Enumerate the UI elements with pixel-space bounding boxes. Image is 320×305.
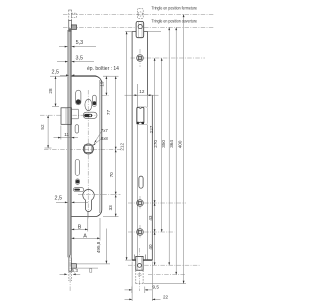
svg-text:40: 40 — [148, 244, 153, 250]
rod-plate junction dark segment — [68, 28, 71, 31]
latch bolt protruding left view — [61, 108, 71, 125]
dim 270 — [161, 58, 163, 232]
slot S6 with screw — [76, 179, 80, 184]
dim 11 — [60, 126, 62, 140]
bottom rod dashed left view — [68, 271, 70, 281]
slot S1 with screw — [76, 90, 81, 105]
svg-text:7x7: 7x7 — [101, 128, 109, 133]
svg-text:43: 43 — [148, 215, 153, 221]
centerline rod vertical axis right view — [139, 49, 141, 67]
latch tail inside case — [71, 108, 78, 110]
centerline bottom guide dashed position axis — [148, 274, 186, 276]
centerline follower axis — [44, 149, 121, 151]
svg-text:227: 227 — [149, 125, 154, 133]
dim 5,3 bottom — [60, 273, 68, 275]
bottom channel walls — [133, 255, 135, 261]
dim 22 — [131, 262, 133, 302]
pill S7 with dark slider — [73, 188, 83, 192]
centerline cylinder axis horizontal — [78, 194, 121, 196]
ext dashed rod bottom — [144, 283, 186, 285]
faceplate top edge right view — [132, 31, 136, 33]
dim 12 — [125, 94, 159, 96]
top fixing screw right view — [137, 55, 144, 62]
dim B — [87, 212, 89, 232]
svg-text:3,5: 3,5 — [76, 56, 84, 62]
section mark small rect — [90, 269, 92, 273]
centerline screw axis for 19 dim — [102, 95, 110, 97]
svg-text:Tringle en position ouverture: Tringle en position ouverture — [152, 18, 198, 23]
svg-text:77: 77 — [106, 110, 111, 116]
bottom rod guide block left view — [71, 264, 76, 269]
svg-text:Tringle en position fermeture: Tringle en position fermeture — [152, 5, 198, 10]
svg-text:9,5: 9,5 — [153, 284, 160, 289]
svg-text:11: 11 — [64, 132, 69, 137]
leader 8x8 — [93, 139, 102, 146]
svg-text:28: 28 — [48, 88, 53, 94]
dim 350 — [168, 27, 170, 265]
bottom rod guide dashed position — [135, 270, 137, 283]
centerline bottom guide axis — [128, 264, 201, 266]
svg-text:70: 70 — [109, 172, 114, 178]
svg-text:8x8: 8x8 — [101, 136, 109, 141]
faceplate right edge lower right view — [151, 95, 153, 260]
faceplate step edge — [148, 94, 153, 96]
centerline latch axis — [40, 114, 97, 116]
dim 495,8 — [105, 229, 107, 264]
svg-text:33: 33 — [108, 205, 113, 211]
centerline top screw axis — [131, 57, 206, 59]
svg-text:B: B — [78, 225, 82, 231]
dim 28 — [50, 75, 67, 77]
faceplate inner fold lines — [136, 84, 138, 107]
faceplate rail edges upper right view — [131, 32, 133, 261]
dim 364 — [175, 27, 177, 274]
svg-text:270: 270 — [153, 140, 158, 148]
rod guide dashed (closed) right view — [137, 8, 143, 18]
dim chain 77 70 33 — [103, 75, 119, 77]
centerline rod closed position — [63, 13, 214, 15]
dim 3,5 top — [57, 61, 68, 63]
dim 5,3 top — [59, 46, 68, 48]
dim 19 — [103, 75, 109, 77]
roller1 right view — [137, 200, 144, 207]
dim 400 — [183, 14, 185, 283]
svg-text:19: 19 — [99, 81, 104, 87]
svg-text:2,5: 2,5 — [52, 69, 60, 75]
latch opening right view — [137, 107, 148, 125]
leader 2,5 cylinder — [56, 201, 68, 203]
rod guide solid left view — [71, 25, 76, 30]
centerline roller1 axis — [128, 202, 186, 204]
rod guide dashed (closed) left view — [71, 13, 76, 17]
dim 212 — [125, 31, 132, 33]
pill S4 with dark slider — [83, 112, 97, 118]
bottom rod solid left view — [68, 257, 70, 271]
euro cylinder hole — [83, 190, 94, 212]
svg-text:A: A — [83, 234, 87, 240]
rod top dashed (closed) left view — [68, 10, 70, 21]
centerline rod vertical axis left view bottom — [69, 254, 71, 291]
svg-text:ép. boîtier : 14: ép. boîtier : 14 — [87, 66, 119, 72]
bottom rod guide block right view — [136, 256, 143, 270]
faceplate strip bottom chamfer — [69, 254, 71, 258]
rod top solid (open) left view — [68, 21, 70, 32]
leader 7x7 — [94, 132, 101, 143]
dim 9,5 — [131, 287, 133, 294]
svg-text:212: 212 — [120, 143, 125, 151]
svg-text:495,8: 495,8 — [96, 241, 101, 253]
lock case outline left view — [71, 76, 101, 216]
faceplate edge strip left view — [68, 30, 71, 257]
svg-text:2,5: 2,5 — [55, 196, 63, 202]
dim 2,5 top — [60, 74, 69, 76]
svg-text:52: 52 — [40, 124, 45, 130]
svg-text:12: 12 — [139, 89, 145, 94]
lock case inner edge line — [99, 80, 101, 213]
centerline cylinder-follower vertical axis — [87, 90, 89, 219]
faceplate bottom edge right view — [132, 259, 152, 261]
centerline rod open position — [63, 26, 214, 28]
svg-text:364: 364 — [169, 140, 174, 148]
centerline roller2 axis — [128, 231, 175, 233]
svg-text:22: 22 — [163, 294, 169, 299]
slot S5 — [75, 160, 79, 176]
dim chain 227 43 40 — [154, 58, 156, 265]
slot S1b — [75, 125, 79, 133]
oblong slot right view — [139, 176, 143, 188]
svg-text:350: 350 — [161, 140, 166, 148]
rod guide solid (open) right view — [136, 21, 144, 37]
svg-text:5,3: 5,3 — [76, 40, 84, 46]
svg-text:400: 400 — [178, 140, 183, 148]
oval S3 — [85, 99, 92, 110]
dim 52 — [47, 115, 49, 148]
slot S2 with screw — [93, 95, 97, 106]
svg-text:5,3: 5,3 — [72, 268, 79, 273]
dim A — [99, 218, 101, 241]
roller2 right view — [137, 229, 144, 236]
follower square 7x7 — [83, 144, 93, 154]
